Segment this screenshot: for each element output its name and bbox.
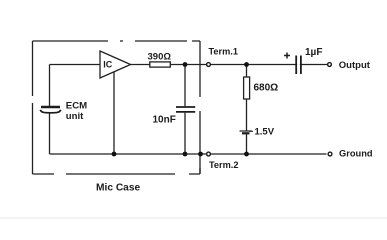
svg-text:unit: unit xyxy=(66,111,84,122)
svg-text:680Ω: 680Ω xyxy=(254,83,279,94)
svg-text:Term.1: Term.1 xyxy=(209,47,238,57)
svg-text:ECM: ECM xyxy=(66,101,87,112)
svg-text:390Ω: 390Ω xyxy=(148,52,172,63)
svg-text:Term.2: Term.2 xyxy=(209,160,238,170)
svg-text:1µF: 1µF xyxy=(305,47,322,58)
svg-text:Mic Case: Mic Case xyxy=(96,183,141,194)
svg-text:10nF: 10nF xyxy=(153,115,176,126)
svg-text:IC: IC xyxy=(103,59,113,69)
svg-text:Output: Output xyxy=(339,60,371,71)
svg-text:Ground: Ground xyxy=(339,149,373,159)
svg-text:1.5V: 1.5V xyxy=(255,127,275,138)
